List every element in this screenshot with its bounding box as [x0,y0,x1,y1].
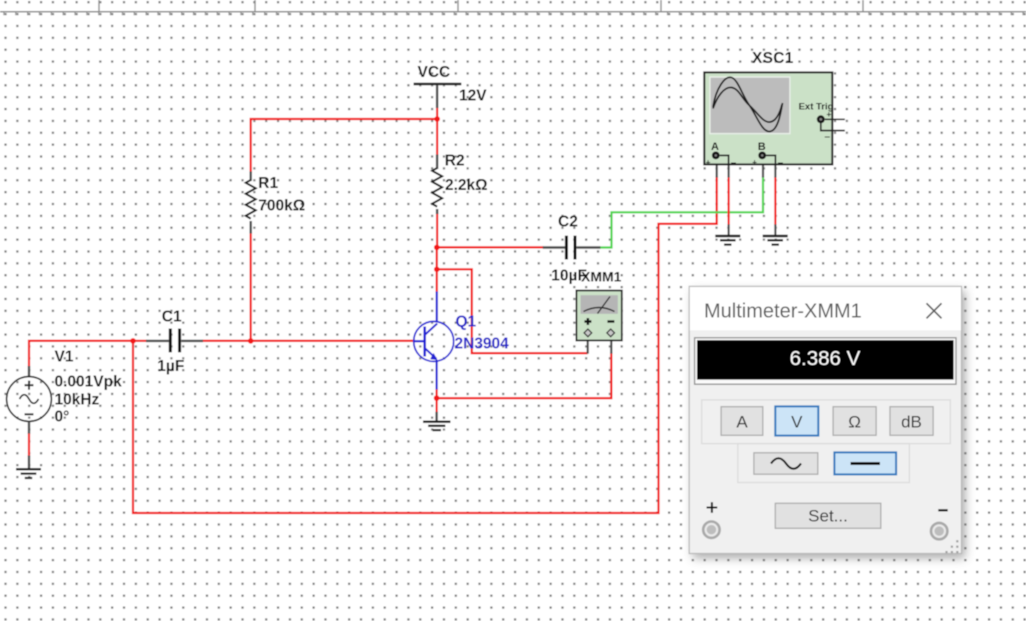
svg-text:–: – [731,158,737,169]
button Set [775,503,881,528]
wire emitter to ground node [436,389,438,412]
svg-text:0.001Vpk: 0.001Vpk [55,374,123,391]
svg-text:B: B [758,141,766,153]
plus terminal label [707,502,718,513]
svg-text:V1: V1 [55,349,74,366]
svg-text:dB: dB [901,413,922,432]
svg-text:12V: 12V [459,88,487,105]
resistor R2 [432,153,488,215]
window body [689,286,961,553]
button ohm [833,407,876,436]
svg-text:XSC1: XSC1 [752,50,794,67]
sheet border tick row [0,13,1026,16]
junction dots [130,116,440,401]
title bar [690,287,961,330]
svg-text:1µF: 1µF [157,358,184,375]
wire V1 top to node A [29,341,133,366]
ext trig pin [817,115,825,123]
svg-text:10kHz: 10kHz [55,392,100,409]
node R1 bottom junction [248,338,254,344]
wire collector node to C2 [437,246,544,248]
node collector/XMM1 junction [434,267,440,273]
node VCC/R2/R1 junction [434,116,440,122]
close button [927,303,942,318]
svg-text:Multimeter-XMM1: Multimeter-XMM1 [704,301,862,323]
svg-text:XMM1: XMM1 [581,269,622,285]
wire scope A minus to ground (red part) [727,177,729,225]
wire R2 top lead red [436,119,438,155]
svg-text:0°: 0° [55,409,70,426]
ground (scope channel B return) [763,236,788,245]
svg-text:–: – [778,158,784,169]
wire C2 to scope B plus (green) [600,177,763,248]
button A [721,407,763,436]
wire VCC rail to R1 top [251,119,437,173]
wire scope B minus to ground (red part) [774,177,776,225]
wire VCC stub red part [436,108,438,120]
svg-text:+: + [827,110,832,119]
multimeter dialog window XMM1 [689,286,965,558]
node emitter junction [434,395,440,401]
group box modes [702,400,951,444]
svg-text:C1: C1 [162,309,182,326]
svg-text:A: A [711,141,719,153]
wire emitter node to XMM1 minus [437,353,612,398]
node input junction (V1/C1/feedback) [130,338,136,344]
ground (below V1) [16,469,41,478]
ground (below Q1 emitter) [423,412,451,430]
wire R2 bottom to collector node [436,213,438,247]
svg-text:R1: R1 [258,175,278,192]
lead stubs dark: XMM1 terminals [587,341,589,354]
svg-text:+: + [752,158,757,167]
svg-text:+: + [706,158,711,167]
svg-text:V: V [791,413,803,432]
svg-text:R2: R2 [445,153,465,170]
wire R1 bottom to input node [250,233,252,341]
svg-text:Ω: Ω [848,413,861,432]
multimeter probe icon XMM1 [576,269,621,341]
svg-text:VCC: VCC [418,64,451,81]
button DC (active) [834,452,896,474]
power symbol VCC [414,64,488,108]
plus terminal jack [703,522,719,538]
wire C1 to Q1 base [203,340,415,342]
window shadow [693,291,965,558]
svg-text:A: A [736,413,748,432]
button V (active) [775,406,818,435]
resistor R1 [246,172,306,234]
sheet border column dividers [99,0,863,12]
svg-text:2N3904: 2N3904 [455,336,510,353]
wire input node to C1 [133,340,147,342]
svg-text:Set...: Set... [808,507,848,526]
svg-text:Q1: Q1 [456,314,477,331]
node collector/C2 junction [434,245,440,251]
minus terminal label [938,509,947,511]
group box waveform [738,444,910,483]
lead stubs dark: scope pins [716,165,718,178]
svg-text:700kΩ: 700kΩ [258,198,305,215]
capacitor C1 [146,309,203,376]
wire collector tap to XMM1 plus [437,269,588,353]
wire collector node down [436,247,438,292]
oscilloscope icon XSC1 [704,50,845,169]
ground (scope channel A return) [715,236,740,245]
svg-text:–: – [825,132,831,143]
svg-text:6.386 V: 6.386 V [790,347,861,370]
display bezel [695,338,956,384]
svg-text:C2: C2 [558,214,578,231]
button dB [890,407,933,436]
transistor Q1 [414,292,509,390]
resize grip [945,540,958,553]
ac source V1 [7,349,122,469]
svg-text:2.2kΩ: 2.2kΩ [445,177,488,194]
wire feedback bottom loop to scope A [133,177,717,514]
sheet border top line [0,11,1026,13]
button AC [754,453,818,474]
capacitor C2 [543,214,601,285]
minus terminal jack [931,523,947,539]
